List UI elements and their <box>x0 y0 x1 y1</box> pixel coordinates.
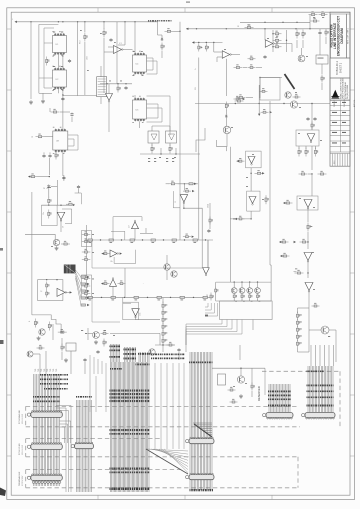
wire <box>183 184 185 191</box>
wire <box>183 363 185 449</box>
junction <box>106 83 107 84</box>
junction <box>147 297 148 298</box>
node N11 <box>28 175 30 177</box>
ground <box>37 336 41 340</box>
junction <box>121 239 122 240</box>
title block approval row <box>330 115 350 117</box>
wire <box>45 351 47 374</box>
wire <box>103 22 105 29</box>
ground <box>94 340 98 344</box>
label L23 <box>141 74 143 77</box>
resistor R7 <box>109 239 114 241</box>
label L75 <box>152 242 155 243</box>
ground <box>29 100 33 104</box>
diode D2 <box>285 74 295 89</box>
box <box>296 130 319 146</box>
resistor R25 <box>249 293 253 301</box>
resistor R96 <box>228 387 236 391</box>
svg-text:26: 26 <box>63 226 65 228</box>
wire <box>26 487 298 489</box>
title block approval text <box>334 98 356 107</box>
ground <box>55 246 59 250</box>
IC U3 <box>97 77 107 97</box>
resistor R93 <box>210 293 214 301</box>
junction <box>295 28 296 29</box>
resistor R76 <box>225 102 229 111</box>
node N26 <box>87 304 89 306</box>
label L116 <box>166 332 168 335</box>
IC U7 <box>166 131 177 143</box>
svg-text:1/4k: 1/4k <box>140 313 142 316</box>
op-amp A12 <box>110 278 117 287</box>
resistor R69 <box>102 281 110 285</box>
wire <box>68 139 74 146</box>
wire <box>198 152 200 240</box>
label L111 <box>113 334 115 337</box>
label L60 <box>300 342 302 345</box>
resistor R90 <box>48 322 52 331</box>
wire <box>328 345 330 366</box>
label L74 <box>131 242 134 243</box>
node N13 <box>120 252 122 254</box>
transistor Q3 <box>290 101 297 108</box>
wire <box>225 59 227 96</box>
title block approval row <box>330 130 350 132</box>
border zone tick <box>350 211 355 213</box>
label L142 <box>136 364 150 366</box>
label L4 <box>53 55 55 56</box>
wire <box>179 195 181 240</box>
wire <box>193 42 223 44</box>
wire <box>216 300 271 302</box>
border zone tick <box>271 495 273 499</box>
junction <box>49 176 50 177</box>
wire <box>60 427 65 443</box>
wire <box>294 268 298 271</box>
resistor R5 <box>161 43 165 51</box>
label L140 <box>124 358 136 360</box>
margin mark <box>0 340 4 344</box>
wire <box>162 298 164 303</box>
resistor R13 <box>111 296 116 298</box>
wire <box>315 146 317 149</box>
wire <box>270 265 272 301</box>
label L34 <box>166 161 168 162</box>
wire <box>42 204 74 206</box>
svg-text:TERMINAL BLK: TERMINAL BLK <box>18 471 21 486</box>
resistor R20 <box>245 24 254 28</box>
wire <box>198 120 200 152</box>
junction <box>309 28 310 29</box>
title block approval row <box>330 140 350 142</box>
label L166 <box>268 399 291 401</box>
wire <box>166 363 168 449</box>
wire <box>319 345 321 366</box>
label L110 <box>104 329 106 332</box>
junction <box>307 272 308 273</box>
label L90 <box>246 176 248 179</box>
label L104 <box>235 300 237 303</box>
box <box>82 275 92 297</box>
box <box>260 78 280 101</box>
border zone tick <box>97 8 99 12</box>
wire <box>34 374 60 486</box>
label L97 <box>159 157 161 158</box>
title block approval row <box>330 151 350 153</box>
junction <box>73 205 74 206</box>
title block approval row <box>330 110 350 112</box>
label L96 <box>231 126 233 129</box>
wire <box>78 189 80 193</box>
wire <box>301 48 303 55</box>
resistor R8 <box>151 145 155 154</box>
wire <box>230 218 251 220</box>
op-amp A1 <box>114 46 124 54</box>
wire <box>134 95 136 100</box>
wire <box>52 324 54 340</box>
node N6 <box>270 111 272 113</box>
op-amp A4 <box>265 40 274 48</box>
border zone tick <box>7 211 11 213</box>
label L39 <box>224 48 226 51</box>
wire <box>63 175 65 181</box>
junction <box>77 21 78 22</box>
diode D4 <box>225 114 228 118</box>
wire <box>329 329 336 331</box>
border zone tick <box>350 394 355 396</box>
wire <box>229 147 231 240</box>
wire <box>43 28 45 88</box>
label L107 <box>259 300 261 303</box>
wire <box>92 297 120 322</box>
title block drawing number <box>336 61 343 75</box>
wire <box>190 352 212 490</box>
label L6 <box>53 66 55 67</box>
svg-text:SHEET 1: SHEET 1 <box>340 62 343 73</box>
ground <box>41 99 45 103</box>
title block sheet cell <box>347 14 351 58</box>
wire <box>250 211 252 219</box>
wire <box>305 146 307 149</box>
label L158 <box>33 396 60 398</box>
transistor Q15 <box>93 332 100 339</box>
svg-text:SHT 1 OF 1 ISS 1: SHT 1 OF 1 ISS 1 <box>348 27 350 44</box>
wire <box>135 317 137 320</box>
wire <box>194 424 212 437</box>
svg-text:12: 12 <box>175 201 177 203</box>
label L112 <box>166 304 168 307</box>
label L17 <box>114 41 116 44</box>
op-amp A11 <box>110 250 119 257</box>
junction <box>233 218 234 219</box>
label L163 <box>190 489 214 491</box>
transistor Q2 <box>239 288 245 294</box>
wire <box>321 64 323 74</box>
label L171 <box>307 397 334 399</box>
label L50 <box>320 139 322 142</box>
op-amp A20 <box>203 268 210 276</box>
resistor R19 <box>81 283 86 285</box>
resistor R71 <box>237 158 245 162</box>
node N1 <box>15 21 17 23</box>
resistor R26 <box>256 293 260 301</box>
box <box>38 280 63 301</box>
wire <box>243 67 247 69</box>
label L156 <box>44 388 68 390</box>
svg-text:DIAGRAM: DIAGRAM <box>340 28 344 44</box>
label L45 <box>299 106 301 109</box>
border zone tick <box>97 495 99 499</box>
label L84 <box>158 299 161 300</box>
label L103 <box>85 333 87 334</box>
node N16 <box>262 172 264 174</box>
wire <box>186 28 330 30</box>
connector P2 <box>27 443 62 450</box>
wire <box>205 303 208 307</box>
wire <box>297 457 299 488</box>
resistor R67 <box>82 290 91 294</box>
wire <box>56 411 69 493</box>
wire <box>214 51 223 53</box>
wire <box>111 231 125 240</box>
svg-text:MOLEX 26W: MOLEX 26W <box>22 414 24 424</box>
wire <box>62 150 64 176</box>
resistor R4 <box>103 29 107 38</box>
title block approval row <box>330 105 350 107</box>
wire <box>205 303 218 316</box>
resistor R6 <box>88 239 93 241</box>
wire <box>257 300 259 302</box>
transistor Q5 <box>321 326 329 334</box>
capacitor C1 <box>68 59 71 63</box>
svg-text:28: 28 <box>206 295 208 297</box>
wire <box>309 329 321 331</box>
label L82 <box>112 299 115 300</box>
wire <box>241 282 243 288</box>
resistor R81 <box>183 234 191 238</box>
wire <box>225 110 227 114</box>
junction <box>193 297 194 298</box>
op-amp A18 <box>180 195 188 204</box>
label L148 <box>110 429 150 431</box>
label L42 <box>276 41 278 44</box>
wire <box>307 232 309 249</box>
op-amp A2 <box>106 94 113 103</box>
wire <box>178 363 180 449</box>
wire <box>215 282 217 301</box>
wire <box>146 449 188 473</box>
resistor R28 <box>273 31 282 35</box>
junction <box>264 22 265 23</box>
wire <box>92 240 208 268</box>
node N15 <box>237 160 239 162</box>
svg-text:10u: 10u <box>43 212 45 215</box>
op-amp A6 <box>304 200 312 210</box>
label L8 <box>53 89 55 90</box>
wire <box>33 353 40 355</box>
transistor Q1 <box>298 55 305 62</box>
resistor R29 <box>273 37 282 41</box>
label L144 <box>110 390 150 392</box>
wire <box>297 308 299 313</box>
resistor R20 <box>81 290 86 292</box>
op-amp A9 <box>57 212 65 221</box>
junction <box>204 271 205 272</box>
junction <box>296 22 297 23</box>
connector P6 <box>186 473 214 480</box>
label L98 <box>174 157 176 158</box>
junction <box>142 239 143 240</box>
wire <box>26 469 180 471</box>
wire <box>186 320 242 346</box>
wire <box>145 228 147 233</box>
label L57 <box>300 321 302 324</box>
resistor R40 <box>261 109 269 113</box>
border zone tick <box>350 455 355 457</box>
resistor R65 <box>82 275 91 279</box>
svg-text:4k7: 4k7 <box>129 225 131 228</box>
resistor R15 <box>157 296 162 298</box>
label L89 <box>252 153 254 156</box>
label L154 <box>40 379 68 381</box>
resistor R37 <box>325 29 329 37</box>
label L170 <box>307 391 334 393</box>
label L5 <box>61 55 63 56</box>
label L20 <box>133 50 135 53</box>
label L102 <box>81 330 83 331</box>
svg-text:DRN R.T.: DRN R.T. <box>334 99 336 107</box>
wire <box>140 232 153 234</box>
transistor Q16 <box>237 376 244 383</box>
wire <box>55 151 57 154</box>
label L135 <box>110 346 121 348</box>
resistor R64 <box>82 256 91 260</box>
junction <box>235 103 236 104</box>
title block approval row <box>330 100 350 102</box>
margin mark <box>0 488 6 497</box>
transistor Q17 <box>27 351 33 357</box>
label L21 <box>141 50 143 53</box>
wire <box>217 56 222 58</box>
transistor Q2 <box>285 92 291 98</box>
capacitor C13 <box>77 185 80 189</box>
op-amp A15 <box>151 134 157 140</box>
border zone tick <box>7 333 11 335</box>
svg-text:MOLEX 26W: MOLEX 26W <box>22 445 24 455</box>
relay K1 <box>64 265 76 274</box>
label L150 <box>110 468 150 470</box>
wire <box>48 158 50 175</box>
label L46 <box>313 16 315 19</box>
resistor R54 <box>36 134 45 138</box>
wire <box>166 183 169 185</box>
wire <box>333 345 335 366</box>
wire <box>319 35 321 55</box>
label L153 <box>40 374 68 376</box>
junction <box>62 94 63 95</box>
resistor R21 <box>198 44 202 52</box>
wire <box>179 95 181 195</box>
label L86 <box>204 299 207 300</box>
junction <box>257 281 258 282</box>
junction <box>307 241 308 242</box>
resistor R9 <box>151 239 156 241</box>
junction <box>62 21 63 22</box>
resistor R48 <box>307 223 311 232</box>
wire <box>76 274 82 291</box>
wire <box>246 97 253 99</box>
wire <box>42 93 44 99</box>
label L152 <box>110 488 150 491</box>
resistor R14 <box>134 296 139 298</box>
title block approval row <box>330 135 350 137</box>
wire <box>118 44 125 46</box>
wire <box>134 22 136 53</box>
label L15 <box>87 69 89 72</box>
title block approval row <box>330 120 350 122</box>
wire <box>319 29 321 31</box>
wire <box>239 345 241 360</box>
transistor Q4 <box>255 288 261 294</box>
junction <box>264 28 265 29</box>
resistor R29 <box>162 316 166 325</box>
wire <box>307 261 309 278</box>
junction <box>198 42 199 43</box>
resistor R1 <box>296 312 300 321</box>
label L168 <box>307 371 324 373</box>
wire <box>71 117 73 122</box>
wire <box>17 21 158 23</box>
label L67 <box>51 245 53 248</box>
resistor R11 <box>193 239 198 241</box>
resistor R52 <box>295 270 304 274</box>
wire <box>240 368 242 376</box>
wire <box>56 180 58 205</box>
border zone tick <box>7 394 11 396</box>
wire <box>179 22 181 95</box>
label L109 <box>205 315 208 317</box>
resistor R95 <box>103 339 107 347</box>
wire <box>216 57 218 62</box>
wire <box>196 128 205 152</box>
wire <box>25 406 27 426</box>
wire <box>308 291 310 311</box>
label L33 <box>154 161 156 162</box>
wire <box>100 97 102 104</box>
wire <box>325 28 327 30</box>
wire <box>26 456 298 458</box>
label L164 <box>268 391 291 393</box>
label L55 <box>313 288 315 291</box>
wire <box>87 328 89 340</box>
junction <box>101 297 102 298</box>
wire <box>39 354 41 374</box>
resistor R94 <box>101 330 109 334</box>
resistor R79 <box>189 183 193 185</box>
capacitor C2 <box>70 113 73 117</box>
wire <box>101 361 103 374</box>
resistor R91 <box>58 329 67 333</box>
svg-text:P.C.B MAIN BD: P.C.B MAIN BD <box>18 410 21 424</box>
junction <box>117 83 118 84</box>
label L44 <box>295 91 297 94</box>
wire <box>195 103 291 105</box>
svg-text:J: J <box>12 19 13 21</box>
wire <box>61 352 63 360</box>
label L151 <box>110 472 150 474</box>
wire <box>103 38 105 46</box>
company logo <box>331 90 339 99</box>
